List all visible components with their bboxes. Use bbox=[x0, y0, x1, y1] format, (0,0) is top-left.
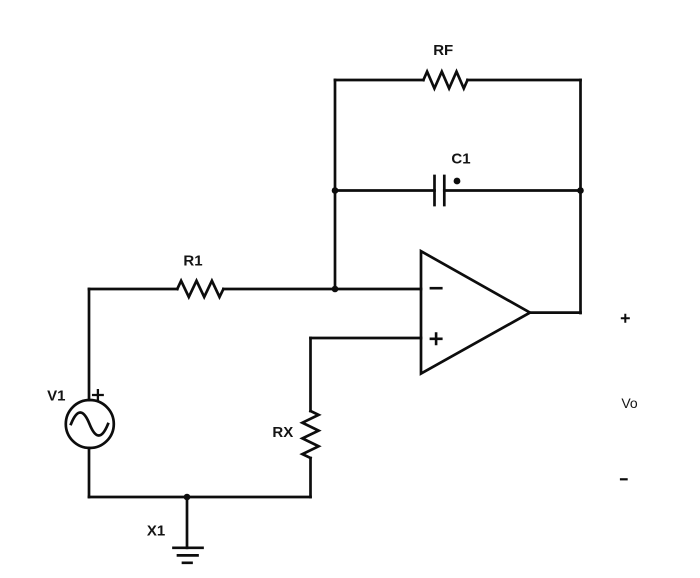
svg-text:R1: R1 bbox=[183, 253, 202, 270]
wire: C1 branch left at y=190.5 bbox=[335, 189, 435, 192]
output plus terminal mark bbox=[622, 315, 629, 322]
junction node: feedback/C1 left bbox=[332, 187, 339, 194]
junction node: feedback/C1 right bbox=[577, 187, 584, 194]
wire: non-inverting input at y=338 bbox=[311, 337, 422, 340]
op-amp U1 minus sign bbox=[431, 287, 441, 290]
capacitor C1 polarity dot bbox=[454, 178, 461, 185]
ground X1 symbol bbox=[174, 548, 203, 563]
capacitor C1 bbox=[435, 176, 445, 205]
voltage source V1 circle bbox=[66, 400, 114, 448]
wire: input from V1 top corner to R1 bbox=[89, 288, 177, 291]
wire: right vertical x=580.5 upper bbox=[579, 80, 582, 191]
wire: V1 bottom vertical bbox=[88, 448, 91, 497]
svg-text:C1: C1 bbox=[451, 151, 470, 168]
wire: op-amp output to right vertical bbox=[530, 311, 581, 314]
wire: RX bottom vertical bbox=[309, 458, 312, 497]
op-amp U1 plus sign bbox=[431, 334, 441, 344]
wire: left feedback vertical x=335 lower bbox=[334, 191, 337, 290]
svg-text:RF: RF bbox=[433, 42, 453, 59]
voltage source V1 sine wave bbox=[71, 413, 108, 436]
svg-text:Vo: Vo bbox=[621, 395, 638, 411]
junction node: inverting input bbox=[332, 286, 339, 293]
wire: V1 top vertical bbox=[88, 289, 91, 400]
svg-text:X1: X1 bbox=[147, 522, 165, 539]
resistor RX bbox=[302, 411, 318, 458]
wire: ground stem X1 bbox=[186, 497, 189, 548]
op-amp U1 triangle bbox=[421, 251, 530, 373]
wire: feedback top, left segment at y=80 bbox=[335, 79, 423, 82]
voltage source V1 plus polarity bbox=[93, 390, 103, 400]
wire: left feedback vertical x=335 upper bbox=[334, 80, 337, 191]
wire: feedback top, right segment at y=80 bbox=[468, 79, 581, 82]
junction node: ground bbox=[184, 494, 191, 501]
wire: RX top vertical bbox=[309, 338, 312, 411]
wire: bottom ground rail y=497 bbox=[89, 496, 311, 499]
resistor RF bbox=[423, 72, 467, 89]
wire: C1 branch right at y=190.5 bbox=[444, 189, 580, 192]
output minus terminal mark bbox=[621, 478, 627, 480]
svg-text:V1: V1 bbox=[47, 388, 65, 405]
wire: R1 to inverting input of op-amp bbox=[223, 288, 421, 291]
svg-text:RX: RX bbox=[272, 424, 293, 441]
resistor R1 bbox=[177, 281, 223, 297]
wire: right vertical x=580.5 lower bbox=[579, 191, 582, 314]
